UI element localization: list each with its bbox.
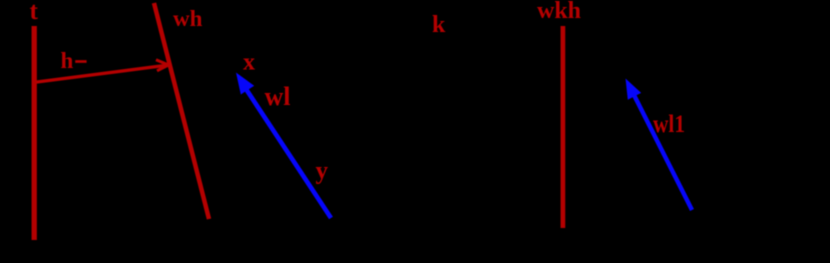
svg-text:k: k — [432, 12, 446, 38]
svg-text:wkh: wkh — [537, 0, 581, 24]
svg-text:wl1: wl1 — [653, 111, 685, 138]
wire wall-line 2 (right vertical) — [561, 26, 566, 228]
wire blue arrow wl shaft — [244, 86, 331, 218]
wire h arrowhead — [156, 60, 169, 71]
wire slanted line wh — [154, 3, 209, 219]
svg-text:x: x — [243, 50, 255, 76]
wire blue arrow wl1 head — [626, 79, 642, 100]
wire blue arrow wl1 shaft — [634, 95, 692, 210]
wire blue arrow wl head — [236, 73, 254, 95]
wire h arrow shaft — [33, 65, 169, 83]
svg-text:t: t — [30, 0, 39, 25]
svg-text:y: y — [316, 158, 329, 185]
wire h label dash — [75, 60, 86, 63]
svg-text:wl: wl — [265, 82, 291, 111]
svg-text:h: h — [61, 48, 74, 73]
svg-text:wh: wh — [173, 6, 203, 31]
wire wall-line t (left vertical) — [32, 26, 37, 240]
